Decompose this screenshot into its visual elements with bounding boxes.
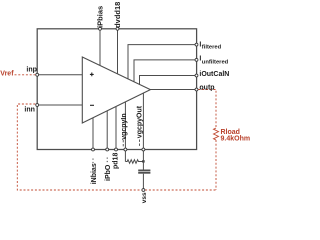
- pin iOutCalN: [195, 74, 198, 77]
- svg-text:inp: inp: [26, 67, 37, 74]
- pin pd18: [115, 148, 118, 151]
- wire Iunfiltered: [134, 60, 197, 82]
- svg-text:pd18: pd18: [113, 153, 120, 169]
- svg-text:iPbias: iPbias: [96, 6, 105, 28]
- pin iPbias: [99, 27, 102, 30]
- wire vgcpyOut stub: [142, 93, 144, 150]
- wire iOutCalN: [140, 76, 197, 85]
- net outp red dashed lead: [198, 90, 216, 129]
- leader dash vgcpyOut: [138, 140, 140, 148]
- pin inn: [36, 104, 39, 107]
- wire pd18 stub: [115, 106, 117, 149]
- svg-text:iPbO: iPbO: [105, 164, 112, 181]
- svg-text:filtered: filtered: [202, 45, 222, 51]
- svg-text:iNbias: iNbias: [91, 163, 98, 184]
- pin vgcpyOut: [142, 148, 145, 151]
- wire vgcpyIn pin down to resistor: [124, 150, 126, 162]
- leader dots iPbO: [106, 158, 108, 164]
- svg-text:dvdd18: dvdd18: [113, 2, 122, 28]
- wire inn pin to triangle: [37, 104, 82, 106]
- svg-text:9.4kOhm: 9.4kOhm: [221, 135, 251, 142]
- minus input marker: [90, 104, 94, 106]
- svg-text:vss: vss: [141, 192, 148, 203]
- resistor R1 zigzag: [125, 160, 143, 164]
- pin vgcpyIn: [124, 148, 127, 151]
- wire iPbO stub: [106, 111, 108, 150]
- wire vgcpyOut pin down to capacitor: [142, 150, 144, 170]
- wire outp from apex: [150, 89, 196, 91]
- wire dvdd18 stub: [117, 29, 119, 74]
- svg-text:unfiltered: unfiltered: [202, 59, 229, 65]
- wire iPbias stub: [99, 29, 101, 66]
- wire vgcpyIn stub: [124, 102, 126, 150]
- resistor Rload zigzag: [214, 128, 219, 140]
- leader dash vgcpyIn: [122, 140, 124, 148]
- svg-text:vgcpyOut: vgcpyOut: [137, 105, 144, 138]
- pin iPbO: [106, 148, 109, 151]
- wire capacitor to vss pin: [142, 174, 144, 190]
- leader dots iNbias: [92, 159, 94, 165]
- svg-text:vgcpyIn: vgcpyIn: [121, 113, 128, 139]
- capacitor C1 plates: [138, 170, 150, 172]
- pin dvdd18: [116, 27, 119, 30]
- pin vss: [142, 189, 145, 192]
- wire iNbias stub: [92, 118, 94, 150]
- svg-text:Vref: Vref: [0, 71, 14, 78]
- svg-text:iOutCalN: iOutCalN: [199, 71, 229, 78]
- wire Ifiltered: [128, 45, 197, 79]
- pin inp: [36, 73, 39, 76]
- pin Iunfiltered: [195, 58, 198, 61]
- pin iNbias: [92, 148, 95, 151]
- op-amp U1 symbol box: [37, 29, 196, 150]
- net Vref red dashed lead: [15, 74, 36, 76]
- wire inp pin to triangle: [37, 74, 82, 76]
- svg-text:inn: inn: [24, 107, 35, 114]
- op-amp U1 triangle: [82, 57, 150, 123]
- junction dot: [142, 160, 144, 162]
- svg-text:outp: outp: [199, 84, 214, 91]
- pin outp: [195, 88, 198, 91]
- plus input marker: [90, 73, 94, 77]
- pin Ifiltered: [195, 43, 198, 46]
- net inn red dashed loop: [17, 104, 216, 190]
- net Rload bottom red dashed: [215, 140, 217, 190]
